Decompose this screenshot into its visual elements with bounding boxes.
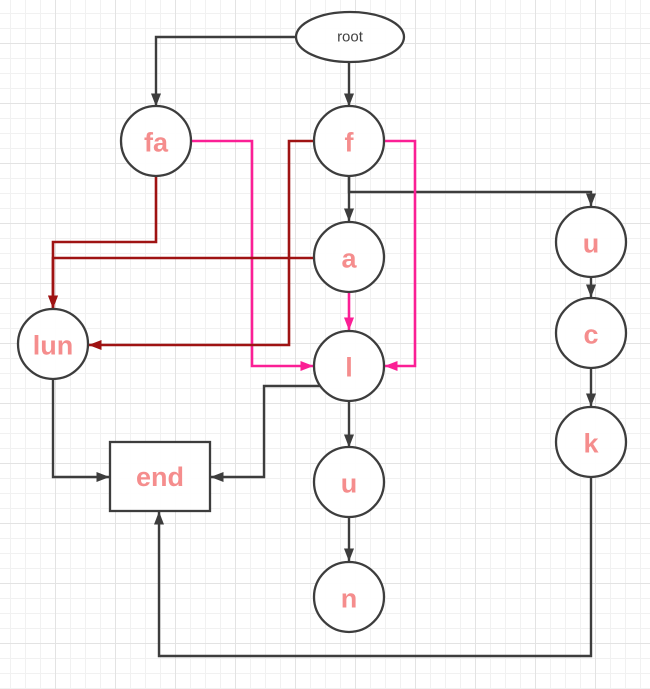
svg-text:root: root [337,29,364,46]
wire l->u [348,401,350,447]
wire root->f [348,62,350,106]
wire a->l (magenta) [348,292,351,330]
wire a->lun (dark red) [53,258,314,308]
svg-text:u: u [341,469,358,499]
svg-text:n: n [341,584,358,614]
svg-text:l: l [345,353,353,383]
svg-text:lun: lun [33,331,74,361]
svg-text:fa: fa [144,128,169,158]
node n [314,562,384,632]
wire fa->lun (dark red) [53,176,156,308]
node root [296,12,404,62]
svg-text:end: end [136,462,184,492]
svg-text:k: k [583,429,599,459]
wire root->fa [156,37,296,106]
node u (right column) [556,207,626,277]
wire f->l (magenta) [384,141,415,366]
wire f->lun (dark red) [89,141,314,345]
node c [556,298,626,368]
svg-text:f: f [345,128,355,158]
svg-text:c: c [583,320,598,350]
wire f->a [348,176,350,221]
wire l->end [211,386,321,477]
node fa [121,106,191,176]
node u (middle column) [314,447,384,517]
node l [314,331,384,401]
node a [314,222,384,292]
node k [556,407,626,477]
svg-text:u: u [583,229,600,259]
wire u->n [348,517,350,561]
node lun [18,309,88,379]
node f [314,106,384,176]
wire lun->end [53,379,109,477]
wire u->c [590,277,592,297]
node end [110,442,210,511]
wire fa->l (magenta) [191,141,313,366]
wire k->end [159,477,591,656]
wire f->u (right column) [349,176,591,206]
svg-text:a: a [341,244,357,274]
wire c->k [590,368,592,406]
